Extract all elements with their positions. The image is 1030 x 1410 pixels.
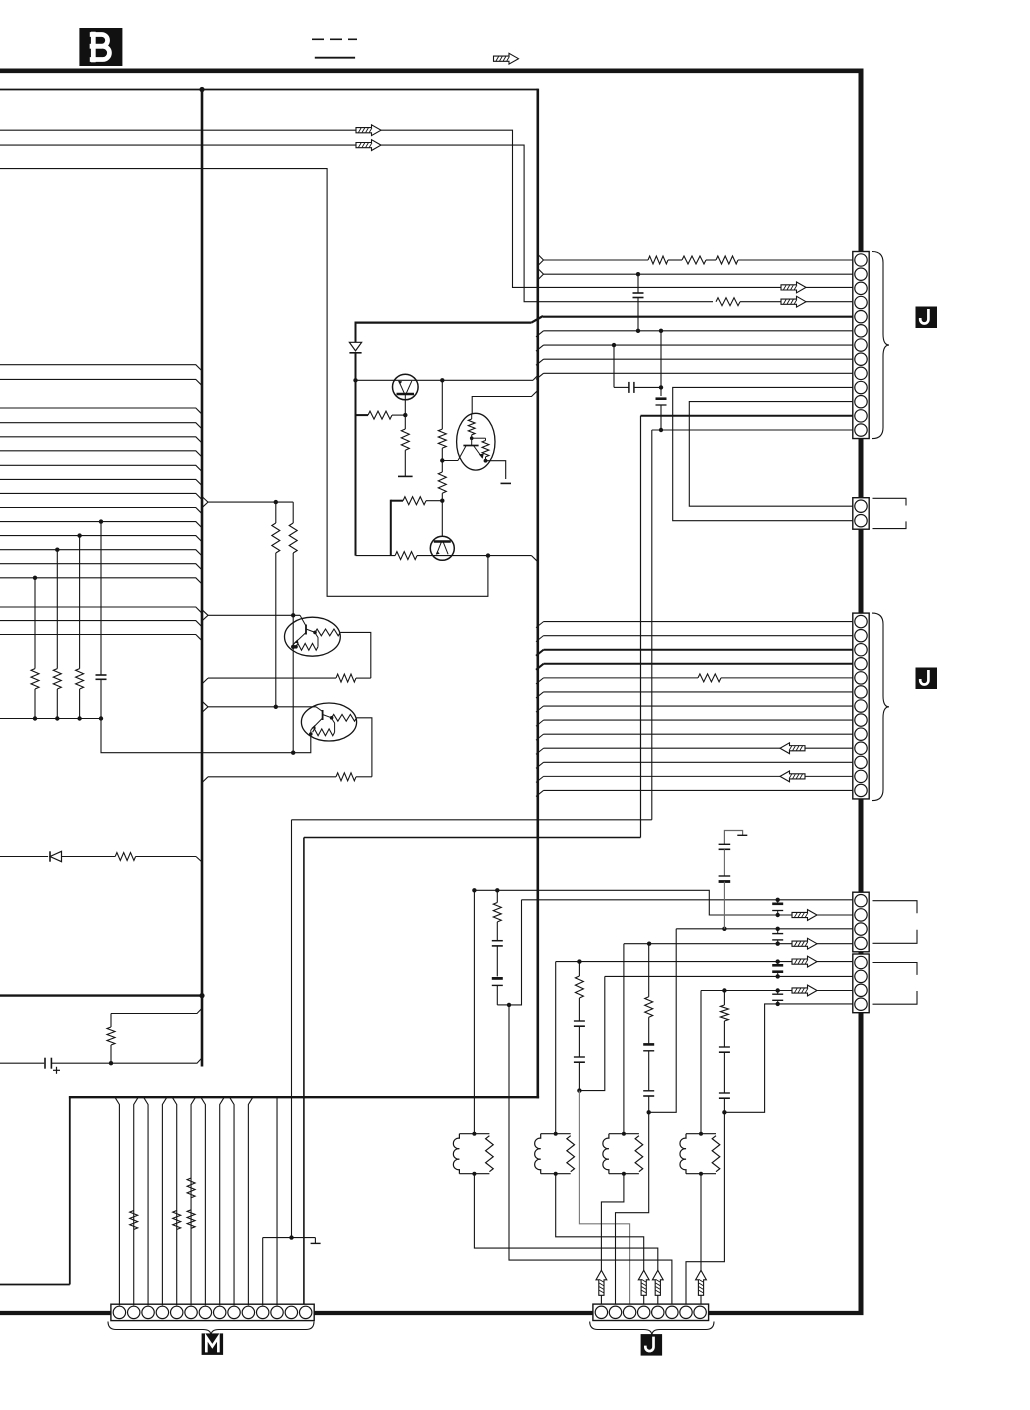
node Q1 collector junction [403,413,407,417]
capacitor C13 [574,1021,585,1057]
node pin6 junction C3 [636,329,640,333]
resistor R1 on J1 pin4 line [716,298,740,306]
wire bus entry line 9 [0,493,202,499]
node return junction C1 [99,716,103,720]
wire C1 shield pin4 [873,930,918,944]
wire X1 to pin5 [474,1174,657,1306]
resistor R24 [173,1211,181,1230]
wire battery line to bus [111,1058,202,1063]
node chain B junction [647,1110,651,1114]
wire X4 to pin8 [700,1174,702,1306]
wire M pin12 riser [276,1097,278,1305]
node legend signal arrow [494,53,519,64]
ground open terminal R12 [398,475,413,477]
wire emitter return run [101,719,311,753]
resistor R9 [115,853,202,862]
transistor Q1 [393,374,419,400]
wire J2 pin9 line [536,734,853,740]
wire left bus vertical [201,90,204,1067]
node junction on entry line 13 [55,548,59,552]
node J1 brace [872,252,889,439]
wire J1 pin2 line [538,269,853,280]
wire page right border [859,69,864,1316]
wire M pin6 riser [191,1097,196,1305]
wire X2 riser [555,962,557,1134]
wire net to pin6 [509,1005,672,1306]
node pin6 junction C5 [659,329,663,333]
wire battery line [0,1062,44,1064]
crystal X4 [680,1132,720,1176]
wire R15 thick drop [390,500,392,556]
resistor R22 chain C [720,991,728,1048]
wire chain C to pin7 [686,1112,724,1305]
wire diode line [0,856,48,858]
node L5 chain junction [577,959,581,963]
wire inner top line [0,89,538,91]
wire L3 drop [649,929,677,1113]
wire Q1 collector [404,400,406,415]
wire chain A branch to L6 [579,976,604,1090]
wire L1 top [522,899,853,901]
capacitor C5 [656,331,667,430]
wire J1 pin6 line [536,331,853,337]
wire L5 line [556,961,853,963]
node R5 to Q4 junction [274,705,278,709]
node junction on entry line 11 [99,519,103,523]
wire J3 shield bottom [873,521,907,528]
wire Q3 output [340,632,371,678]
wire J2 pin3 line [536,650,853,656]
wire J1 pin9 line [536,373,853,379]
node base line junction [353,378,357,382]
wire X3 to pin1 [601,1174,624,1306]
capacitor C16 [643,1091,654,1113]
node left bus top junction [199,87,204,92]
connector J4 bottom [593,1304,709,1320]
wire X3 riser [623,944,625,1134]
wire J1 pin1 exit [538,255,648,266]
resistor R21 chain B [645,944,653,1044]
capacitor C1 tap [96,522,107,719]
wire bottom-left bus vertical [69,1096,71,1284]
resistor R19 [716,256,738,264]
resistor R7 [202,674,371,684]
wire L8 line [724,1004,852,1112]
connector C2 group [853,954,869,1013]
capacitor C7 [772,927,783,946]
resistor R20 chain A [575,962,583,1021]
node X1 riser junction [472,888,476,892]
wire bus exit to Q4 input [202,701,316,712]
wire bus entry line 7 [0,465,202,471]
wire bus entry line 4 [0,423,202,429]
wire M pin5 riser [172,1097,177,1305]
wire M pin11 link [263,1237,316,1239]
node L3 jumper junction [722,927,726,931]
capacitor C11 [719,844,731,875]
capacitor C8 [772,959,783,978]
wire J2 pin1 line [536,622,853,628]
wire bus entry line 1 [0,365,202,371]
capacitor C15 [643,1044,654,1090]
node emitter return junction [291,751,295,755]
wire M pin1 riser [115,1097,120,1305]
wire bus entry line 3 [0,408,202,414]
wire common return line [0,718,101,720]
node B section label [79,28,122,66]
connector J3 [853,498,869,530]
transistor Q5 digital [457,413,495,470]
wire bus exit to Q3 input [202,610,300,621]
node chain C junction [722,1110,726,1114]
resistor R11 [356,411,406,419]
node bias line junction [274,500,278,504]
wire right bus vertical [536,89,539,1099]
wire J2 pin12 line [536,776,853,782]
resistor R3 tap [53,550,61,719]
wire M pin7 riser [201,1097,206,1305]
node J1 label [916,307,938,329]
wire page top border [0,69,864,74]
wire thick rail to bus [0,994,202,996]
wire M pin3 riser [144,1097,149,1305]
wire R17-R18 link [668,259,682,261]
wire J1 pin11 line [689,402,853,507]
node C3 top junction [636,272,640,276]
wire J2 pin8 line [536,720,853,726]
capacitor C12 [719,876,731,929]
node arrow bottom connector [596,1270,607,1295]
diode D1 [50,851,115,861]
wire M pin2 riser [134,1097,139,1305]
wire J1 pin13 line [652,430,853,820]
wire J1 pin5 thick line [543,316,853,318]
wire legend solid line [315,57,355,59]
node arrow to C2 pin5 [792,956,817,967]
node C4 junction [659,385,663,389]
node Q3 input junction [291,613,295,617]
resistor R17 [648,256,668,264]
resistor R5 [272,502,280,707]
node J2 label [916,668,938,690]
node bus bottom junction [199,993,204,998]
wire pin13 long run [292,820,652,1238]
transistor Q4 digital [301,703,356,741]
wire J2 pin2 line [536,636,853,642]
wire J2 pin10 line [536,748,853,754]
node L1 cap junction [776,898,780,902]
resistor R4 tap [31,578,39,719]
node arrow bottom connector [652,1270,663,1295]
transistor Q3 digital [285,615,341,656]
diode D2 [349,342,361,353]
node M brace [108,1322,314,1336]
resistor R6 [289,502,297,615]
resistor R16 [395,552,417,560]
wire J2 pin4 line [536,664,853,670]
node base-divider junction [440,378,444,382]
node junction on entry line 12 [77,533,81,537]
node return junction R3 [55,716,59,720]
wire C2 shield pin8 [873,991,918,1004]
node arrow on net A [356,125,381,136]
node jumper mark bottom [311,1238,321,1244]
node R10 bottom junction [109,1061,113,1065]
wire J2 pin13 line [536,790,853,796]
wire M pin9 riser [230,1097,235,1305]
capacitor C18 [719,1093,730,1112]
wire block left rail lower [355,353,357,556]
wire net C top run [0,169,488,597]
wire Q5 oval feed [472,391,537,414]
resistor R8 [202,773,372,783]
resistor R26 [187,1178,195,1198]
wire C1 shield pin1 [873,901,918,914]
resistor R12 [401,415,409,476]
ground open terminal Q5 [501,482,512,484]
wire legend dashed line [312,38,357,40]
node return junction R2 [77,716,81,720]
connector J1 [853,252,869,439]
node arrow on J2 pin10 [780,743,805,754]
node chain C9 top junction [495,888,499,892]
wire divider mid [441,461,443,473]
wire J2 pin5 line [536,674,853,684]
resistor R10 [107,1014,115,1064]
wire block left rail upper [355,322,357,343]
wire R6 lower segment [292,615,294,752]
node jumper mark top [724,831,747,845]
wire bus entry line 11 [0,522,202,528]
capacitor-resistor chain C9 [492,890,509,1005]
node arrow to C1 pin2 [792,910,817,921]
wire net B top run [0,145,713,302]
node M label [202,1333,224,1355]
wire J1 pin8 line [536,359,853,365]
wire bus entry line 2 [0,379,202,385]
node block bottom junction [486,553,490,557]
wire bus entry line 8 [0,479,202,485]
wire net A top run [0,130,853,287]
wire M pin4 riser [162,1097,167,1305]
wire X4 riser [700,991,702,1134]
wire bus entry line 18 [0,635,202,641]
wire chain B to pin2 [616,1112,649,1305]
wire J1 pin10 line [673,387,853,520]
wire Q4 output [357,718,372,777]
node arrow on J2 pin12 [780,771,805,782]
wire bus entry line 5 [0,437,202,443]
node arrow to J1 pin3 [781,282,806,293]
wire bus entry line 16 [0,607,202,613]
resistor R2 tap [76,536,84,719]
wire Q5 base link [442,460,458,462]
wire Q5 output [486,461,506,479]
wire page bottom border [0,1311,864,1315]
capacitor C17 [719,1047,730,1093]
node C6 bottom junction [776,913,780,917]
wire bus entry line 6 [0,451,202,457]
node L4 chain junction [647,942,651,946]
node J4 label [641,1334,663,1356]
wire bus entry line 14 [0,564,202,570]
capacitor C6 [772,900,783,915]
node C5 bottom junction [659,428,663,432]
wire net C rise [487,555,489,557]
wire bus entry line 17 [0,621,202,627]
node return junction R4 [33,716,37,720]
wire R18-R19 link [706,259,716,261]
node chain C9 bottom junction [507,1003,511,1007]
wire M pin8 riser [220,1097,225,1305]
wire net B to J1 pin4 [740,301,853,303]
connector J2 [853,613,869,799]
wire J1 pin7 line [536,345,853,351]
wire R19 to J1 pin1 [738,259,853,261]
wire Q1 base line [356,375,539,381]
wire pin12 long run [304,838,641,1306]
wire J2 pin7 line [536,706,853,712]
node J4 brace [590,1322,714,1336]
wire M pin10 riser [248,1097,253,1305]
node arrow to C2 pin7 [792,985,817,996]
wire C2 shield pin5 [873,963,918,975]
wire L1 line [509,900,522,1005]
transistor Q2 [430,536,454,560]
resistor R18 [682,256,706,264]
node arrow to C1 pin4 [792,938,817,949]
wire chain A to pin3 [579,1091,629,1306]
wire X1 riser [473,890,475,1133]
wire R10 top line [111,1008,202,1013]
wire L6 line [605,975,853,977]
wire M pin11 riser [262,1238,264,1306]
node chain A junction [577,1088,581,1092]
resistor R14 [438,472,446,501]
node arrow bottom connector [638,1270,649,1295]
connector C1 group [853,892,869,952]
connector M [111,1304,314,1320]
wire bus entry line 10 [0,508,202,514]
wire L4 line [624,943,853,945]
wire bus exit to bias resistors [202,497,293,508]
wire block bottom line right [417,556,537,562]
wire J2 pin11 line [536,762,853,768]
crystal X3 [603,1132,643,1176]
wire bottom-left bus stub [0,1284,70,1286]
resistor R13 [438,380,446,460]
resistor R15 [391,497,443,505]
node pin11-pin13 junction [289,1235,293,1239]
wire bus entry line 12 [0,536,202,542]
wire J1 pin12 thick line [641,416,853,838]
node pin7 junction [612,343,616,347]
wire J3 shield top [873,498,907,505]
node arrow on net B [356,140,381,151]
node junction on entry line 15 [33,576,37,580]
node arrow bottom connector [696,1270,707,1295]
wire J2 pin6 line [536,692,853,698]
wire bus entry line 13 [0,550,202,556]
crystal X1 [453,1132,493,1176]
capacitor C10 [772,988,783,1006]
capacitor C3 [633,274,644,331]
wire bus entry line 15 [0,578,202,584]
wire L2 step [474,890,852,915]
wire L7 line [701,990,853,992]
crystal X2 [535,1132,575,1176]
wire thick bottom bus horizontal [69,1096,539,1098]
capacitor C2 polarized [45,1058,111,1074]
resistor R25 [187,1210,195,1229]
node J2 brace [872,613,889,801]
node Q3 emitter junction [291,645,295,649]
node L7 chain junction [722,988,726,992]
capacitor C4 [614,345,661,393]
node R14 bottom junction [440,499,444,503]
wire L3 line [676,928,853,930]
node arrow to J1 pin4 [781,296,806,307]
capacitor C14 [574,1057,585,1091]
node R13 bottom junction [440,458,444,462]
wire block bottom line [356,555,396,557]
wire block top thick [356,316,544,323]
resistor R23 [130,1211,138,1230]
wire Q2 base feed [441,501,443,537]
wire X2 to pin4 [556,1174,644,1306]
